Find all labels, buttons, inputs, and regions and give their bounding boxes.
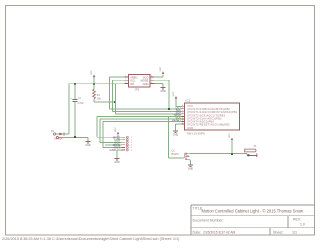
wire RST riser [103,121,182,147]
status line text [2,237,180,241]
connector ISP header SV1 [97,135,133,152]
svg-text:GND: GND [85,144,91,147]
wire sensor pin3 to IC [116,84,182,114]
ground symbol GND5 at Q1 [188,165,194,171]
svg-text:6: 6 [151,75,152,77]
svg-text:VCC: VCC [173,91,175,96]
node sensor out junction [168,108,170,110]
wire sensor pin1 to IC [109,77,181,109]
diode D1 [51,130,69,141]
svg-text:IC1: IC1 [186,99,191,103]
svg-text:REV:: REV: [293,218,301,222]
svg-text:VCC: VCC [91,70,93,75]
wire sensor pin2 to IC [112,80,181,111]
IC IC1 TINY13-20PU microcontroller [182,99,240,136]
svg-text:GND: GND [188,168,194,171]
svg-text:2/26/2015 8:37:42 AM: 2/26/2015 8:37:42 AM [203,230,236,234]
svg-text:2: 2 [125,79,126,81]
svg-text:GND: GND [109,148,116,152]
wire D1 cathode riser [68,84,70,134]
capacitor C1 [70,84,84,138]
svg-text:VCC: VCC [229,133,231,138]
svg-text:Date:: Date: [193,230,202,234]
svg-text:GND: GND [143,82,149,86]
supply VCC symbol P+1 [91,70,95,84]
svg-text:Sheet:: Sheet: [273,230,283,234]
svg-text:TINY13-20PU: TINY13-20PU [187,132,206,136]
svg-text:VCC: VCC [160,66,162,71]
node VCC rail junction C1 [74,83,76,85]
svg-text:1/1: 1/1 [292,230,297,234]
supply VCC symbol P+5 [229,133,233,154]
svg-text:4: 4 [182,123,183,125]
resistor R1 [93,84,102,102]
ground symbol GND2 [154,83,166,93]
wire R1 to sensor OUT net [94,101,116,103]
svg-text:2/26/2015 8:38:25 AM f=1.38: 2/26/2015 8:38:25 AM f=1.38 C:\Users\tsn… [2,237,180,241]
svg-text:5: 5 [151,79,152,81]
node drain VCC junction [231,153,233,155]
wire VCC rail [69,83,125,85]
svg-text:Document Number:: Document Number: [193,219,224,223]
ground rail wire (battery minus) [56,136,88,141]
node ground rail junction C1 [74,136,76,138]
ground symbol GND4 at ISP [114,150,120,164]
wire gate net [168,116,184,158]
wire MISO riser [97,116,182,137]
supply VCC symbol P+4 at ISP [115,127,119,140]
svg-text:1: 1 [125,75,126,77]
svg-text:GND: GND [160,90,166,93]
wire drain to jack [189,152,247,154]
svg-text:GND: GND [114,161,120,164]
wire sensor pin5 down [154,80,169,109]
node R1 net junction [114,101,116,103]
svg-text:1.0: 1.0 [300,222,305,226]
svg-text:JP1: JP1 [135,88,140,92]
svg-text:3: 3 [125,82,126,84]
svg-text:GND: GND [173,134,179,137]
svg-text:(PCINT5/RESET/ADC0/dW)PB5: (PCINT5/RESET/ADC0/dW)PB5 [187,124,230,127]
svg-text:VCC: VCC [115,127,117,132]
svg-text:INT: INT [130,82,135,86]
transistor Q1 BS170 [172,150,190,161]
node VCC rail junction R1 [93,83,95,85]
supply VCC symbol P+3 [173,91,182,106]
connector X1 power jack [245,145,258,157]
svg-text:4.7uF: 4.7uF [77,102,84,105]
supply VCC symbol P+2 [154,66,165,77]
title block [191,205,315,235]
ground symbol GND3 at IC [173,124,182,137]
wire SCK riser [100,119,182,142]
sensor module JP1 [125,75,154,92]
ground symbol GND1 [85,142,91,148]
svg-text:GND: GND [187,127,193,130]
svg-text:Motion Controlled Cabinet Ligh: Motion Controlled Cabinet Light - © 2015… [202,209,304,214]
wire source to ground [189,160,190,165]
svg-text:4: 4 [151,82,152,84]
svg-text:BS170: BS170 [172,153,180,156]
net labels at IC pins [172,106,181,122]
